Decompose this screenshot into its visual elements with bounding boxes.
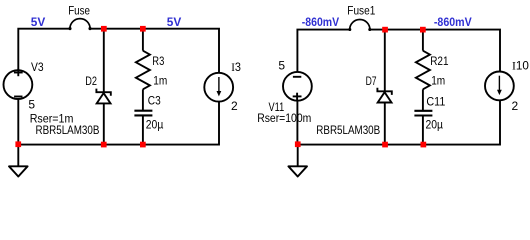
- junction node R3 top: [140, 26, 146, 32]
- wire D7 branch: diode to ground rail: [384, 103, 386, 145]
- svg-text:C3: C3: [148, 93, 161, 107]
- svg-text:D2: D2: [85, 74, 97, 88]
- net label 5V (right): [167, 15, 182, 29]
- net label 5V (left): [31, 15, 46, 29]
- capacitor C11: [414, 111, 432, 116]
- wire V3 bottom pin to ground rail: [17, 99, 19, 145]
- resistor R3: [136, 51, 150, 90]
- junction node V3/ground: [15, 141, 21, 147]
- junction node C11 bottom: [421, 142, 427, 148]
- label R3: [152, 54, 164, 68]
- svg-text:V3: V3: [31, 60, 44, 74]
- junction node R21 top: [420, 27, 426, 33]
- wire R3 to C3: [142, 89, 144, 110]
- svg-text:D7: D7: [366, 74, 377, 88]
- value 20µ (C11): [426, 118, 444, 132]
- value Rser=1m: [30, 112, 74, 126]
- wire net -860mV: fuse1 right to I10 top pin: [370, 30, 500, 72]
- svg-text:2: 2: [512, 99, 519, 113]
- value RBR5LAM30B (D2 model): [36, 123, 100, 137]
- pin number 5 (V11 minus node): [278, 59, 285, 73]
- svg-text:I3: I3: [231, 60, 241, 74]
- svg-text:-860mV: -860mV: [302, 15, 339, 29]
- wire D2 branch: diode to ground rail: [103, 103, 105, 144]
- svg-text:5V: 5V: [31, 15, 46, 29]
- current source I3: [204, 73, 233, 102]
- svg-text:Fuse: Fuse: [68, 4, 90, 18]
- wire ground rail (net 0) with right riser to I10 bottom pin: [297, 101, 500, 145]
- ground symbol left: [9, 145, 28, 177]
- wire V11 bottom pin to ground rail: [296, 101, 298, 145]
- junction node D2 bottom: [101, 142, 107, 148]
- svg-text:5: 5: [278, 59, 285, 73]
- svg-text:20µ: 20µ: [426, 118, 444, 132]
- wire D7 branch: top junction down to diode: [384, 30, 386, 92]
- label Fuse: [68, 4, 90, 18]
- label C3: [148, 93, 161, 107]
- wire R21 branch: top junction to resistor: [422, 30, 424, 51]
- junction node D7 top: [382, 27, 388, 33]
- junction node V11/ground: [295, 141, 301, 147]
- pin number 2 (I10 bottom node): [512, 99, 519, 113]
- pin number 5 (V3 top node): [28, 98, 35, 112]
- value 20µ (C3): [146, 118, 164, 132]
- value Rser=100m: [257, 111, 311, 125]
- pin number 2 (I3 bottom node): [231, 99, 238, 113]
- svg-text:Rser=100m: Rser=100m: [257, 111, 311, 125]
- svg-text:I10: I10: [512, 58, 529, 72]
- svg-text:RBR5LAM30B: RBR5LAM30B: [316, 123, 380, 137]
- label Fuse1: [347, 3, 375, 17]
- value RBR5LAM30B (D7 model): [316, 123, 380, 137]
- diode D2 (schottky, cathode up): [96, 89, 110, 104]
- junction node C3 bottom: [140, 142, 146, 148]
- label V3: [31, 60, 44, 74]
- svg-text:C11: C11: [426, 95, 445, 109]
- svg-text:R3: R3: [152, 54, 164, 68]
- wire net 5V: fuse right to I3 top pin: [90, 29, 219, 73]
- svg-text:20µ: 20µ: [146, 118, 164, 132]
- voltage source V11 (plus down): [283, 72, 312, 101]
- diode D7 (schottky, cathode up): [377, 88, 391, 103]
- svg-text:5: 5: [28, 98, 35, 112]
- label I10: [512, 58, 529, 72]
- svg-text:-860mV: -860mV: [434, 15, 472, 29]
- wire D2 branch: top junction down to diode: [103, 29, 105, 92]
- wire C11 bottom to ground rail: [422, 115, 424, 144]
- resistor R21: [416, 51, 430, 90]
- value 1m (R21): [431, 73, 445, 87]
- wire R21 to C11: [422, 89, 424, 110]
- label I3: [231, 60, 241, 74]
- svg-text:5V: 5V: [167, 15, 182, 29]
- svg-text:RBR5LAM30B: RBR5LAM30B: [36, 123, 100, 137]
- fuse Fuse1 (arc with end dots): [348, 20, 371, 32]
- svg-text:1m: 1m: [153, 73, 167, 87]
- label R21: [430, 54, 449, 68]
- svg-text:Fuse1: Fuse1: [347, 3, 375, 17]
- capacitor C3: [134, 111, 152, 116]
- svg-text:R21: R21: [430, 54, 449, 68]
- net label -860mV (right): [434, 15, 472, 29]
- ground symbol right: [288, 145, 307, 177]
- junction node D2 top: [101, 26, 107, 32]
- label D2: [85, 74, 97, 88]
- wire R3 branch: top junction to resistor: [142, 29, 144, 51]
- label C11: [426, 95, 445, 109]
- wire ground rail (net 0) with right riser to I3 bottom pin: [18, 102, 219, 145]
- net label -860mV (left): [302, 15, 339, 29]
- wire net 5V: fuse left to V3 top pin: [18, 29, 70, 71]
- fuse F1 (arc with end dots): [68, 19, 91, 31]
- label D7: [366, 74, 377, 88]
- svg-text:1m: 1m: [431, 73, 445, 87]
- voltage source V3: [4, 69, 33, 99]
- junction node D7 bottom: [382, 142, 388, 148]
- wire C3 bottom to ground rail: [142, 115, 144, 144]
- wire net -860mV: fuse1 left to V11 top pin: [297, 30, 349, 72]
- value 1m (R3): [153, 73, 167, 87]
- svg-text:2: 2: [231, 99, 238, 113]
- label V11: [269, 100, 285, 114]
- current source I10: [485, 72, 514, 101]
